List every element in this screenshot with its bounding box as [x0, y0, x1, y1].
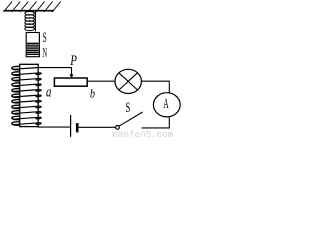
battery: [71, 115, 78, 137]
svg-text:manfen5.com: manfen5.com: [113, 129, 174, 139]
wire coil top to slider P: [37, 68, 72, 75]
wire battery to coil bottom: [38, 126, 71, 128]
ammeter: [153, 93, 180, 117]
fixed support (ceiling): [4, 2, 61, 12]
spring: [25, 11, 36, 31]
slider arrowhead: [70, 74, 74, 78]
svg-text:A: A: [163, 94, 169, 112]
coil (solenoid): [12, 64, 41, 126]
switch S: [116, 112, 143, 129]
svg-text:S: S: [43, 29, 47, 45]
wire ammeter down to bottom rail: [142, 117, 170, 128]
svg-text:a: a: [46, 83, 52, 100]
wire lamp to top-right corner: [141, 81, 169, 93]
svg-text:b: b: [90, 88, 95, 101]
svg-text:S: S: [126, 98, 131, 115]
svg-text:N: N: [43, 45, 48, 60]
lamp: [115, 69, 141, 93]
svg-text:P: P: [69, 53, 77, 69]
rheostat (slide resistor): [54, 78, 87, 86]
bar magnet: [26, 33, 39, 57]
wire switch to battery: [78, 126, 115, 128]
wire rheostat b to lamp: [88, 80, 116, 82]
